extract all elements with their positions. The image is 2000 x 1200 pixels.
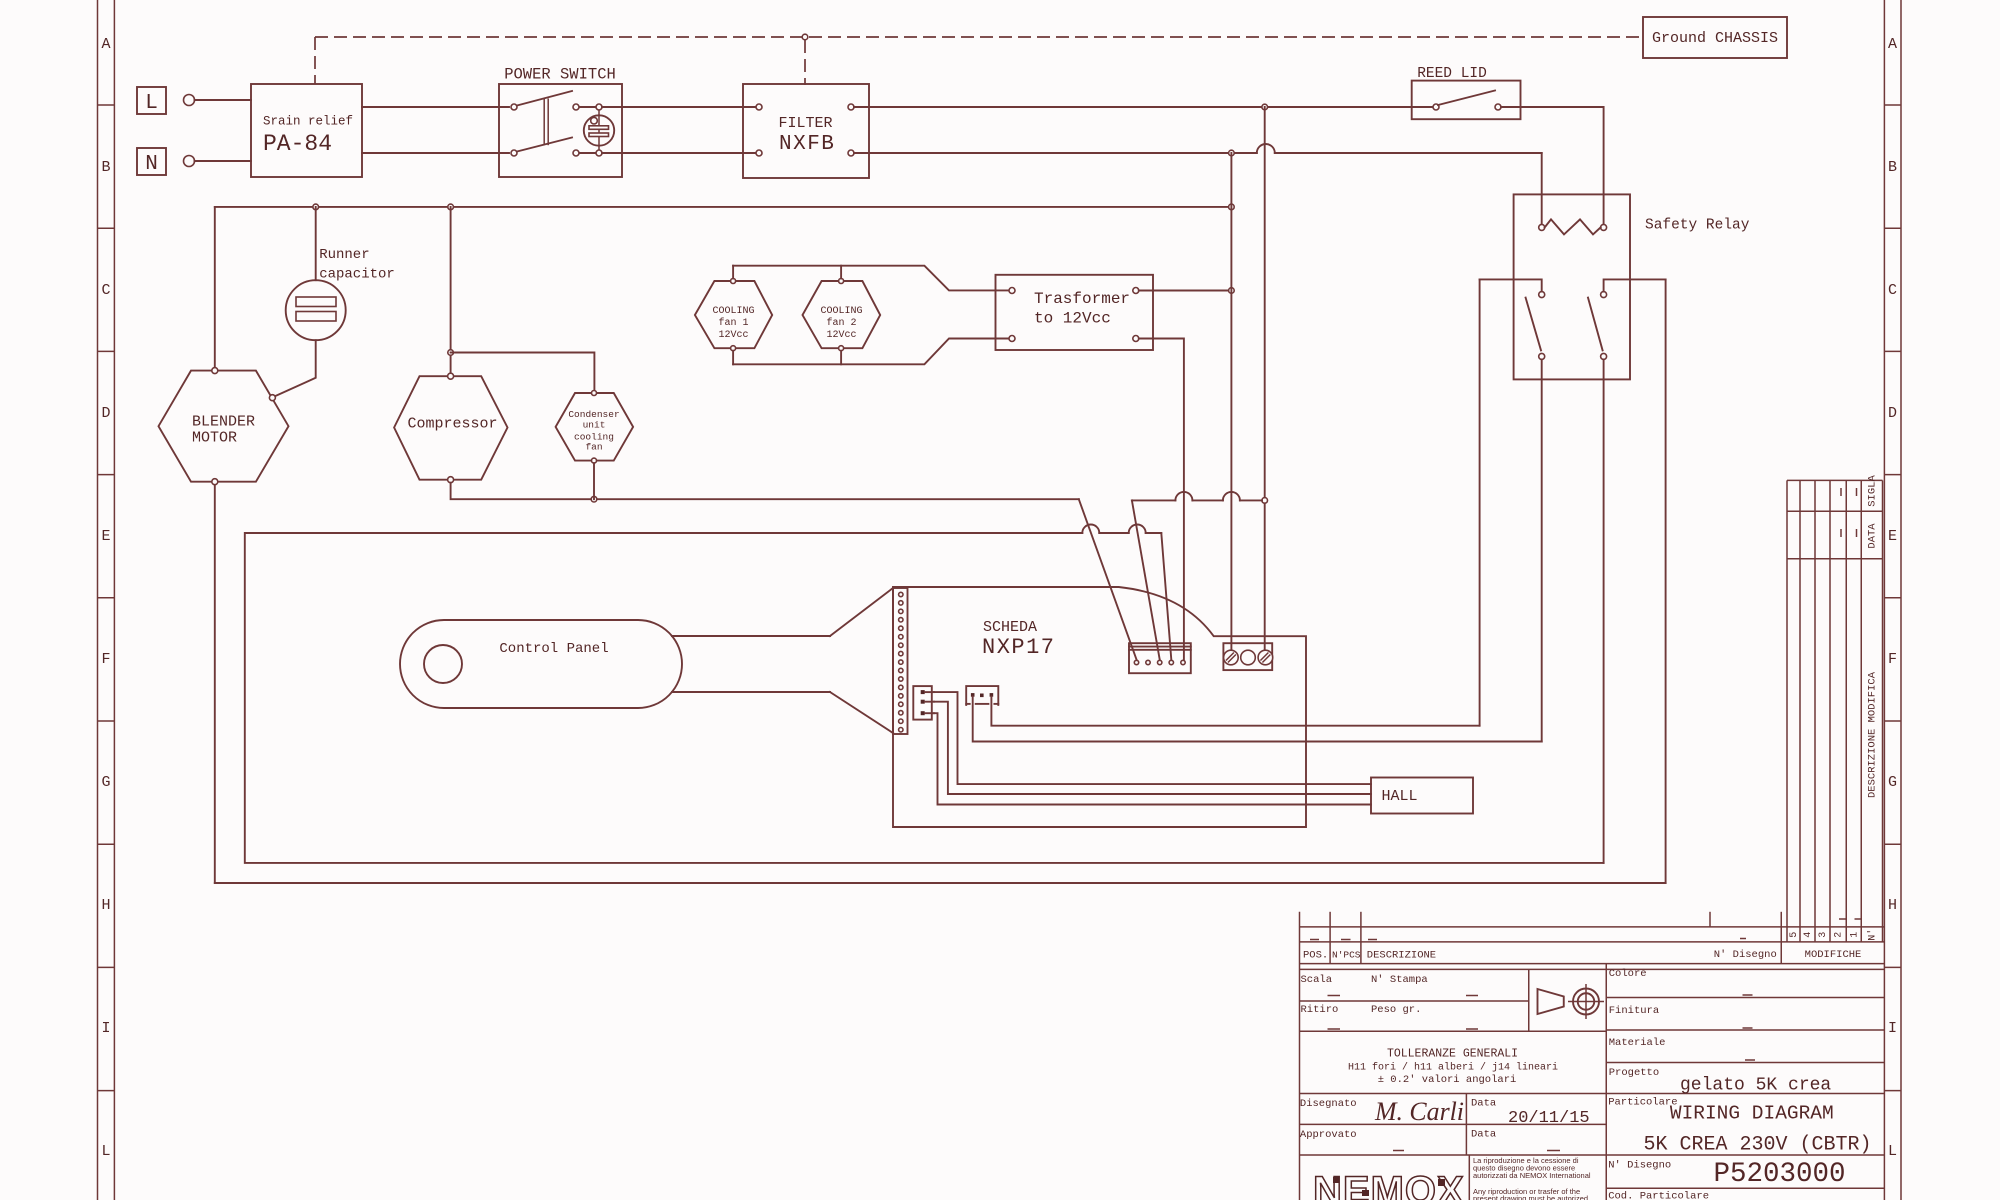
wire power switch to filter (bottom) [602, 152, 756, 154]
svg-text:Particolare: Particolare [1608, 1097, 1677, 1109]
svg-text:to 12Vcc: to 12Vcc [1034, 310, 1111, 328]
scheda NXP17 board outline [893, 587, 1306, 827]
terminal N [137, 148, 195, 176]
svg-text:2: 2 [1834, 932, 1845, 938]
svg-text:HALL: HALL [1382, 788, 1418, 805]
neon lamp inside power switch [584, 115, 614, 145]
junction on y=153 wire [1229, 150, 1235, 156]
svg-text:TOLLERANZE GENERALI: TOLLERANZE GENERALI [1387, 1048, 1518, 1061]
HALL sensor box [1371, 778, 1473, 814]
sheet border left column [98, 0, 115, 1200]
diagonal wire compressor net to pin 1 [1079, 499, 1137, 659]
svg-text:Finitura: Finitura [1609, 1005, 1659, 1017]
drawing number cell [1608, 1159, 1845, 1190]
svg-text:Srain relief: Srain relief [263, 115, 353, 129]
fans top bus to transformer [733, 266, 1009, 291]
junction bus/capacitor [313, 204, 319, 210]
power switch S1 [499, 66, 622, 178]
junction transformer/vertical [1229, 288, 1235, 294]
svg-text:present drawing must be autori: present drawing must be autorized [1473, 1194, 1588, 1200]
svg-text:POWER SWITCH: POWER SWITCH [504, 66, 616, 84]
svg-text:Disegnato: Disegnato [1300, 1098, 1357, 1110]
wire blender motor bottom down to bus A [214, 485, 216, 883]
svg-text:N'PCS: N'PCS [1332, 950, 1361, 961]
svg-text:B: B [101, 159, 110, 176]
svg-text:Peso gr.: Peso gr. [1371, 1004, 1421, 1016]
wire filter to reed lid (phase, y=107) [854, 106, 1433, 108]
title block grid lines [1300, 912, 1885, 1200]
3 pin connector J2 [913, 686, 934, 720]
wire strain relief to power switch (L) [362, 106, 509, 108]
svg-text:Ground CHASSIS: Ground CHASSIS [1652, 30, 1778, 47]
junction y=500 on x=1265 [1262, 498, 1268, 504]
svg-text:H11 fori / h11 alberi / j14 li: H11 fori / h11 alberi / j14 lineari [1348, 1062, 1558, 1074]
wire y=153 down to relay coil left [1541, 153, 1543, 224]
svg-text:capacitor: capacitor [319, 267, 395, 283]
3 screw terminal block TB1 [1223, 643, 1272, 670]
svg-text:SIGLA: SIGLA [1866, 475, 1878, 507]
diagonal wire y533 to pin 4 [1161, 533, 1171, 660]
transformer T1 [996, 275, 1154, 350]
svg-text:E: E [1888, 528, 1897, 545]
particolare cell [1608, 1097, 1871, 1157]
relay contact 1 (left) [1526, 292, 1545, 360]
wire reed lid to relay coil right [1501, 107, 1604, 224]
svg-text:N' Stampa: N' Stampa [1371, 974, 1428, 986]
wire J3 right pin to relay contact1 feed [991, 697, 1479, 726]
wire transformer right bottom down to connector pin 5 [1139, 339, 1184, 661]
svg-text:D: D [1888, 405, 1897, 422]
svg-text:3: 3 [1818, 932, 1829, 938]
wire J2 pin3 to HALL [934, 713, 1371, 804]
feed wire to contact 1 top [1480, 279, 1542, 291]
svg-text:G: G [101, 774, 110, 791]
right column fields [1609, 968, 1832, 1096]
svg-text:E: E [101, 528, 110, 545]
svg-text:fan: fan [585, 442, 602, 453]
cooling fan 1 [695, 279, 772, 351]
svg-text:20/11/15: 20/11/15 [1508, 1109, 1590, 1128]
svg-text:G: G [1888, 774, 1897, 791]
junction compressor/condenser branch [448, 350, 454, 356]
svg-text:Scala: Scala [1301, 974, 1333, 986]
svg-text:I: I [101, 1020, 110, 1037]
svg-text:M. Carli: M. Carli [1374, 1097, 1464, 1126]
wire contact2 bottom down to bus B [1603, 359, 1605, 863]
control panel [400, 620, 682, 708]
y=500 wire with hops [1132, 492, 1262, 501]
fans bottom bus to transformer [733, 339, 1009, 365]
cable funnel to header [830, 588, 893, 733]
blender motor M1 [159, 368, 289, 485]
svg-text:Control Panel: Control Panel [499, 641, 608, 657]
svg-text:SCHEDA: SCHEDA [983, 619, 1037, 636]
parts list header row [1303, 939, 1777, 962]
signature row [1300, 1097, 1590, 1151]
strain relief PA-84 [251, 84, 362, 177]
cooling fan 2 [803, 279, 881, 351]
relay contact 2 (right) [1588, 292, 1607, 360]
svg-text:fan 1: fan 1 [718, 317, 748, 329]
svg-text:P5203000: P5203000 [1713, 1159, 1845, 1190]
tolerances cell [1348, 1048, 1558, 1087]
reed lid switch [1412, 66, 1521, 119]
svg-text:NXFB: NXFB [779, 133, 835, 156]
svg-text:Cod. Particolare: Cod. Particolare [1608, 1191, 1709, 1200]
4 pin connector J3 [966, 686, 998, 705]
wire N to strain relief [195, 160, 252, 162]
wire J2 pin2 to HALL [934, 702, 1371, 794]
svg-text:A: A [101, 36, 110, 53]
svg-text:NXP17: NXP17 [982, 635, 1056, 660]
svg-text:REED LID: REED LID [1417, 66, 1487, 82]
svg-text:I: I [1888, 1020, 1897, 1037]
bus A bottom [215, 882, 1666, 884]
wire contact1 feed down to 4pin right [1479, 279, 1481, 725]
svg-text:MODIFICHE: MODIFICHE [1805, 949, 1862, 961]
svg-text:DESCRIZIONE MODIFICA: DESCRIZIONE MODIFICA [1866, 671, 1878, 798]
wire bus corner down to blender motor [214, 207, 216, 368]
reproduction notice text [1473, 1156, 1591, 1200]
NEMOX logo [1313, 1169, 1465, 1200]
wire filter to safety relay (y=153) with hop [854, 144, 1542, 153]
revision table (rotated) [1787, 475, 1883, 961]
svg-text:L: L [145, 92, 158, 115]
svg-text:D: D [101, 405, 110, 422]
wire condenser bottom to y=499 [593, 463, 595, 499]
svg-text:H: H [101, 897, 110, 914]
runner capacitor C1 [275, 207, 395, 397]
svg-text:5: 5 [1789, 932, 1800, 938]
filter NXFB [743, 84, 869, 178]
junction on y=107 wire [1262, 104, 1268, 110]
wire power switch to filter (top) [602, 106, 756, 108]
wire J2 pin1 to HALL [934, 692, 1371, 784]
svg-text:F: F [101, 651, 110, 668]
ground chassis box [1643, 17, 1787, 58]
svg-text:N' Disegno: N' Disegno [1608, 1160, 1671, 1172]
svg-text:PA-84: PA-84 [263, 131, 332, 157]
ground net dashed wire [315, 37, 1643, 85]
wire J3 left pin to relay contact1 bottom [973, 697, 1542, 742]
top distribution bus y=207 [215, 206, 1232, 208]
svg-text:12Vcc: 12Vcc [826, 330, 856, 341]
svg-text:B: B [1888, 159, 1897, 176]
svg-text:unit: unit [583, 420, 606, 431]
relay coil resistor [1539, 219, 1607, 234]
svg-text:N: N [145, 153, 158, 176]
wire L to strain relief [195, 99, 252, 101]
svg-text:COOLING: COOLING [820, 306, 862, 317]
condenser unit cooling fan M3 [556, 391, 634, 464]
svg-text:4: 4 [1803, 932, 1814, 938]
wire bus down to compressor [450, 207, 452, 373]
svg-text:N': N' [1867, 929, 1879, 941]
svg-text:Condenser: Condenser [568, 409, 619, 420]
ground net junction [802, 34, 808, 40]
svg-text:Runner: Runner [319, 247, 369, 263]
svg-text:POS.: POS. [1303, 950, 1328, 962]
svg-text:L: L [101, 1143, 110, 1160]
svg-text:± 0.2' valori angolari: ± 0.2' valori angolari [1378, 1074, 1517, 1086]
svg-text:5K CREA 230V (CBTR): 5K CREA 230V (CBTR) [1643, 1134, 1871, 1157]
first angle projection symbol [1538, 984, 1605, 1019]
control panel cable neck [672, 636, 830, 692]
feed wire to contact 2 top [1604, 279, 1666, 291]
svg-text:Ritiro: Ritiro [1301, 1004, 1339, 1016]
terminal L [137, 87, 195, 115]
wire contact1 bottom down [1541, 359, 1543, 741]
svg-text:12Vcc: 12Vcc [718, 330, 748, 341]
bus B net: y=533 left segment, left drop and bottom run [245, 525, 1604, 863]
svg-text:DESCRIZIONE: DESCRIZIONE [1367, 950, 1436, 962]
5 pin connector J4 [1129, 643, 1191, 673]
svg-text:C: C [1888, 282, 1897, 299]
svg-text:N' Disegno: N' Disegno [1714, 949, 1777, 961]
junction bus/compressor [448, 204, 454, 210]
wire strain relief to power switch (N) [362, 152, 509, 154]
svg-text:DATA: DATA [1866, 523, 1878, 549]
svg-text:Data: Data [1471, 1098, 1496, 1110]
wire transformer right top to vertical [1139, 290, 1232, 292]
compressor M2 [394, 373, 507, 483]
wire branch to condenser fan [451, 353, 595, 391]
20 pin header strip J1 [893, 588, 908, 734]
svg-text:Progetto: Progetto [1609, 1067, 1659, 1079]
svg-text:L: L [1888, 1143, 1897, 1160]
svg-text:1: 1 [1849, 932, 1860, 938]
junction bus end at vertical [1229, 204, 1235, 210]
junction condenser bottom [591, 496, 597, 502]
wire contact2 feed down to bus A [1665, 279, 1667, 883]
svg-text:A: A [1888, 36, 1897, 53]
svg-text:Materiale: Materiale [1609, 1037, 1666, 1049]
svg-text:C: C [101, 282, 110, 299]
svg-text:autorizzati da NEMOX Internati: autorizzati da NEMOX International [1473, 1171, 1591, 1180]
svg-text:WIRING DIAGRAM: WIRING DIAGRAM [1670, 1103, 1834, 1125]
svg-text:H: H [1888, 897, 1897, 914]
svg-text:FILTER: FILTER [779, 115, 833, 132]
wire compressor bottom to corner [451, 483, 1079, 500]
vertical net x=1265 down to screw 3 [1264, 107, 1266, 650]
svg-text:BLENDER: BLENDER [192, 414, 255, 431]
sheet border right column [1884, 0, 1901, 1200]
safety relay K1 [1514, 194, 1750, 379]
svg-text:Data: Data [1471, 1129, 1496, 1141]
diagonal wire y500 to pin 3 [1132, 500, 1160, 659]
svg-text:Safety Relay: Safety Relay [1645, 218, 1750, 234]
svg-text:COOLING: COOLING [712, 306, 754, 317]
svg-text:MOTOR: MOTOR [192, 430, 237, 447]
title block fields [1301, 974, 1479, 1029]
svg-text:fan 2: fan 2 [826, 317, 856, 329]
svg-text:Colore: Colore [1609, 968, 1647, 980]
svg-text:Trasformer: Trasformer [1034, 290, 1130, 308]
svg-text:F: F [1888, 651, 1897, 668]
svg-text:gelato 5K crea: gelato 5K crea [1680, 1076, 1831, 1096]
svg-text:Approvato: Approvato [1300, 1129, 1357, 1141]
vertical net x=1231 down to screw 1 [1230, 153, 1232, 650]
svg-text:Compressor: Compressor [407, 416, 497, 433]
